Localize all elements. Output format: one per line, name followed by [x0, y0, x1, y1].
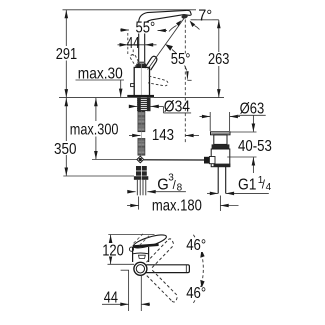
svg-text:Ø34: Ø34 — [164, 99, 190, 116]
svg-text:G: G — [157, 177, 169, 194]
svg-text:7°: 7° — [198, 8, 212, 25]
svg-text:143: 143 — [152, 127, 174, 144]
svg-text:8: 8 — [177, 182, 183, 193]
svg-text:46°: 46° — [186, 237, 206, 254]
svg-text:max.30: max.30 — [78, 65, 123, 82]
svg-text:4: 4 — [266, 182, 272, 193]
svg-text:max.300: max.300 — [70, 122, 119, 139]
svg-text:44: 44 — [104, 289, 118, 306]
svg-text:120: 120 — [102, 242, 124, 259]
svg-text:G1: G1 — [238, 176, 257, 193]
svg-text:291: 291 — [56, 46, 77, 63]
svg-text:Ø63: Ø63 — [240, 101, 265, 118]
svg-text:44: 44 — [127, 35, 140, 52]
svg-text:55°: 55° — [136, 19, 156, 36]
svg-text:55°: 55° — [171, 51, 191, 68]
svg-text:263: 263 — [208, 51, 229, 68]
svg-text:40-53: 40-53 — [238, 138, 272, 155]
svg-text:max.180: max.180 — [152, 198, 202, 215]
svg-text:46°: 46° — [186, 285, 206, 302]
svg-text:350: 350 — [54, 141, 77, 158]
